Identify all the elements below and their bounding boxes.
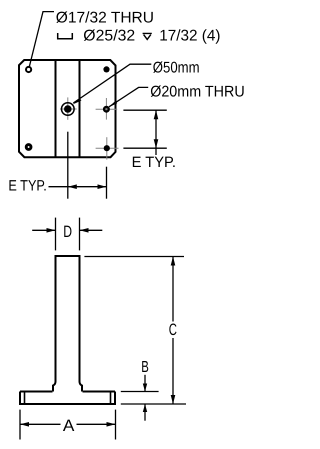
svg-text:Ø20mm THRU: Ø20mm THRU xyxy=(150,84,245,101)
svg-text:B: B xyxy=(141,359,149,376)
A extension line left xyxy=(19,410,21,440)
arrowhead up xyxy=(154,110,159,119)
leader for Ø50mm xyxy=(73,64,151,103)
C dimension line xyxy=(172,257,174,405)
extension line lower (E vertical dim) xyxy=(123,147,166,149)
B lower arrow xyxy=(144,404,146,421)
mid-right hole Ø20mm xyxy=(104,107,109,112)
D extension line left xyxy=(55,218,57,251)
arrowhead A right xyxy=(107,422,116,427)
post right edge seen in top view xyxy=(79,60,81,157)
post top edge (front view) xyxy=(55,255,81,257)
bottom-right corner hole xyxy=(104,145,110,151)
arrowhead C bottom xyxy=(171,395,176,404)
svg-text:A: A xyxy=(63,417,75,435)
A extension line right xyxy=(115,410,117,440)
D extension line right xyxy=(79,218,81,251)
D dimension line right segment xyxy=(80,229,103,231)
post left edge with foot xyxy=(53,255,56,391)
arrowhead Ø20mm leader xyxy=(109,101,118,108)
svg-text:E TYP.: E TYP. xyxy=(132,154,176,171)
bottom extension line (B and C) xyxy=(121,403,186,405)
top-left corner hole xyxy=(26,67,31,72)
D dimension line left segment xyxy=(32,229,55,231)
bottom-right corner hole crosshair xyxy=(96,137,119,159)
svg-text:Ø25/32: Ø25/32 xyxy=(83,28,135,45)
center hole crosshair xyxy=(60,97,77,119)
base right end cap line xyxy=(110,392,112,405)
svg-text:Ø50mm: Ø50mm xyxy=(153,59,200,76)
depth symbol xyxy=(143,33,152,39)
arrowhead right xyxy=(98,184,107,189)
post left edge seen in top view xyxy=(55,60,57,157)
C top extension line xyxy=(84,256,184,258)
arrowhead down xyxy=(154,139,159,148)
center hole Ø50mm xyxy=(62,103,75,116)
svg-text:17/32 (4): 17/32 (4) xyxy=(159,28,220,45)
leader for Ø20mm THRU xyxy=(109,87,148,106)
leader for corner hole callout xyxy=(29,12,54,67)
arrowhead left xyxy=(68,184,77,189)
top-right corner hole xyxy=(103,66,109,72)
arrowhead D left xyxy=(47,228,56,233)
bottom-left corner hole xyxy=(26,145,31,150)
arrowhead A left xyxy=(20,422,29,427)
extension line upper (E vertical dim) xyxy=(123,109,166,111)
arrowhead D right xyxy=(80,228,89,233)
base plate (front view) xyxy=(20,392,115,405)
svg-text:D: D xyxy=(63,223,72,241)
mid-right hole crosshair xyxy=(96,98,118,120)
B upper arrow xyxy=(144,375,146,392)
arrowhead C top xyxy=(171,257,176,266)
plate outline (top view) xyxy=(19,60,116,157)
dimension line E horizontal xyxy=(49,186,107,188)
counterbore symbol xyxy=(58,33,73,39)
svg-text:Ø17/32 THRU: Ø17/32 THRU xyxy=(56,9,154,26)
A dimension line xyxy=(20,423,116,425)
extension line from centerline down xyxy=(67,132,69,199)
dimension line E vertical xyxy=(155,110,157,155)
B top extension line xyxy=(121,391,159,393)
extension line from right hole column down xyxy=(106,167,108,199)
base left end cap line xyxy=(24,392,26,405)
post right edge with foot xyxy=(80,255,83,391)
svg-text:C: C xyxy=(169,321,177,339)
svg-text:E TYP.: E TYP. xyxy=(8,178,46,195)
arrowhead Ø50mm leader xyxy=(73,98,82,104)
